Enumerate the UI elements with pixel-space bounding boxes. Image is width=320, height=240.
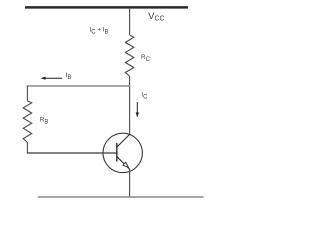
svg-text:VCC: VCC xyxy=(148,11,164,22)
svg-text:RC: RC xyxy=(141,54,151,63)
svg-text:IC: IC xyxy=(141,92,148,101)
svg-text:RB: RB xyxy=(40,117,49,126)
svg-text:IB: IB xyxy=(66,72,72,81)
svg-text:IC + IB: IC + IB xyxy=(90,27,109,36)
